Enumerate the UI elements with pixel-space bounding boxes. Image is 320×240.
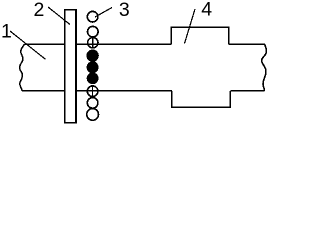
wire shaft top line left segment [25,43,66,45]
collar bottom-left vertical (item 4) [171,91,173,107]
leader line for label 2 [48,7,70,25]
collar step-down right vertical (item 4) [228,27,230,44]
wire shaft bottom line right segment [230,90,264,92]
svg-text:3: 3 [119,0,130,21]
ball 1 (top open circle, item 3) [87,11,98,22]
plate P (item 2) [65,10,76,123]
ball 2 (open circle) [88,26,99,37]
wire shaft bottom line left segment [22,90,65,92]
wire shaft top line middle segment [76,43,171,45]
wire shaft bottom line middle segment [76,90,172,92]
collar top horizontal (item 4) [171,26,230,28]
ball 7 vertical centerline [92,85,94,97]
ball 3 vertical centerline [92,37,94,48]
svg-text:2: 2 [34,0,45,21]
collar step-up left vertical (item 4) [170,27,172,44]
ball 9 (bottom open circle) [87,109,99,121]
svg-text:4: 4 [201,0,212,20]
leader line for label 1 [10,31,46,59]
wire shaft top line right segment [229,43,265,45]
ball 4 (filled black ball) [87,50,98,61]
shaft right break squiggle [262,44,267,91]
ball 6 (filled black ball) [87,73,98,84]
ball 3 (open circle with crosshair on shaft top line) [88,38,98,48]
collar bottom-right vertical (item 4) [229,91,231,107]
collar bottom horizontal (item 4) [171,106,231,108]
shaft left break squiggle [20,44,25,91]
leader line for label 4 [185,9,196,44]
leader line for label 3 [95,8,112,18]
ball 5 (filled black ball) [87,62,98,73]
svg-text:1: 1 [1,21,12,43]
ball 8 (open circle) [87,98,98,109]
ball 7 (open circle with crosshair on shaft bottom line) [87,86,98,97]
